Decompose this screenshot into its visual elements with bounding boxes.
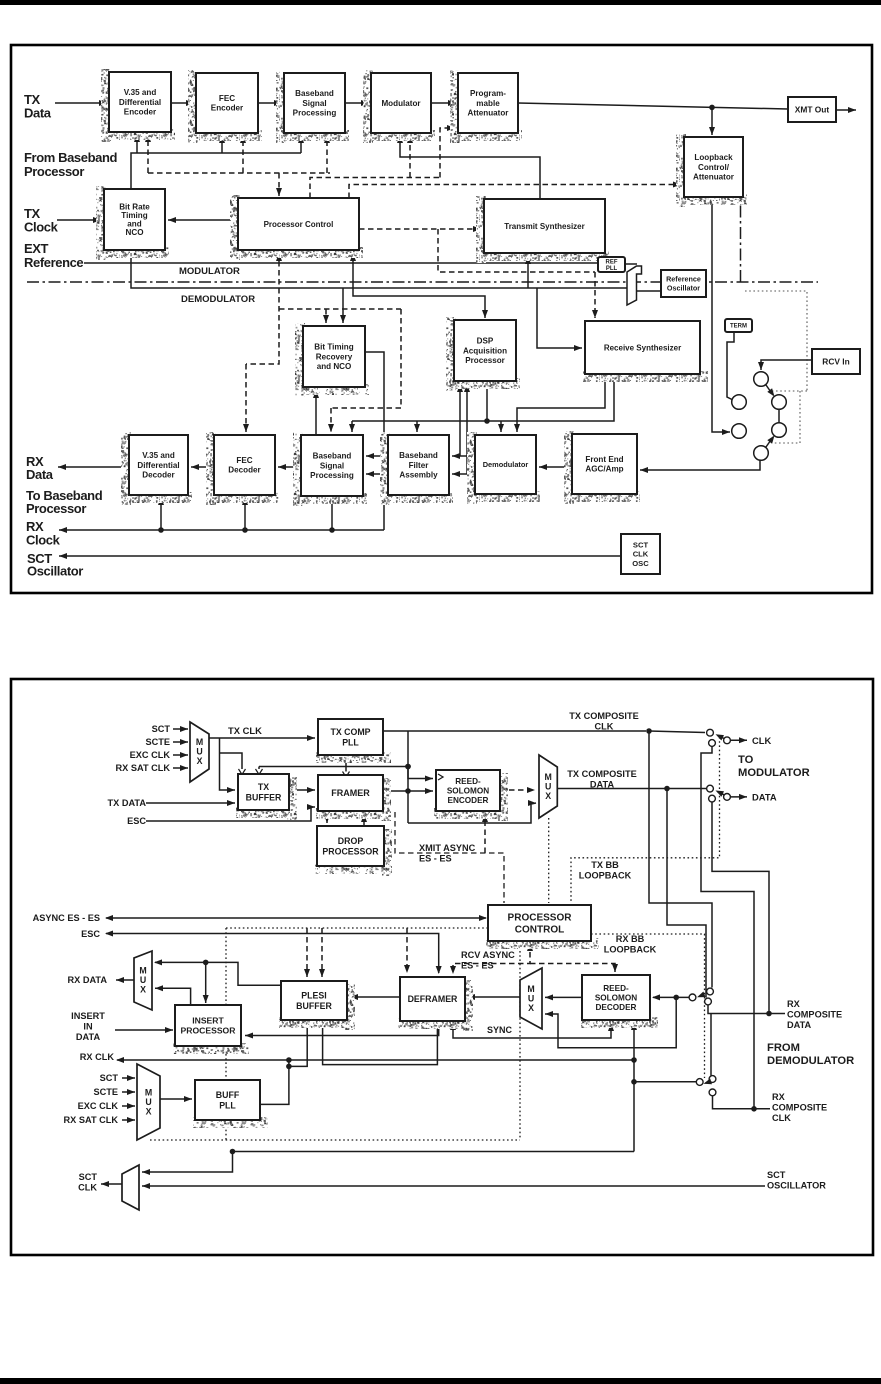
block DSP Acquisition Processor xyxy=(446,317,520,391)
hybrid link C6-C4 xyxy=(766,436,775,448)
wire DATA output arrow xyxy=(731,794,748,800)
mux M4 (sct clk select) xyxy=(122,1165,139,1210)
svg-text:Processing: Processing xyxy=(310,471,354,480)
svg-text:From Baseband: From Baseband xyxy=(24,150,118,165)
junction dots on vertical xyxy=(405,764,411,770)
wire receive synth -> demodulator xyxy=(514,374,605,432)
switch RX DATA contact dn xyxy=(705,998,712,1005)
svg-text:TX COMPOSITE: TX COMPOSITE xyxy=(569,711,638,721)
dashed bus D1 drop into processor control xyxy=(276,173,282,196)
block Processor Control xyxy=(230,195,363,260)
hybrid link C2-C4 xyxy=(778,410,780,423)
label From Baseband Processor xyxy=(24,150,118,179)
wire mux2 out TX COMPOSITE DATA xyxy=(557,786,706,792)
wire clk feed to mux2 lower input xyxy=(408,800,536,823)
wire ESC line xyxy=(105,931,442,975)
block RCV In xyxy=(812,349,860,374)
wire junction down into loopback control xyxy=(709,107,715,135)
wire clk bus to tx buffer / framer tops xyxy=(259,764,411,773)
wire RX Data output xyxy=(58,464,129,470)
svg-text:Processor Control: Processor Control xyxy=(264,220,334,229)
wire rx composite clk line xyxy=(713,1096,771,1112)
switch TX DATA blade xyxy=(716,791,725,797)
wire tx clk drop to tx buffer left xyxy=(220,738,236,793)
svg-text:COMPOSITE: COMPOSITE xyxy=(772,1102,827,1112)
block Baseband Signal Processing (rx) xyxy=(293,432,367,506)
wire clk vertical drop xyxy=(407,731,409,823)
svg-text:TO: TO xyxy=(738,754,754,766)
wire drop into sct clk mux xyxy=(142,1152,233,1176)
svg-text:PLL: PLL xyxy=(342,737,359,747)
wire XMT out exit arrow xyxy=(837,107,856,113)
block TX BUFFER xyxy=(236,774,297,820)
dotted outline near rcv hybrid 1 xyxy=(745,291,807,391)
label SCTE (mux6) xyxy=(93,1087,118,1097)
block Baseband Signal Processing (tx) xyxy=(276,70,349,143)
label SCT CLK xyxy=(78,1172,97,1192)
wire mux1 input SCTE xyxy=(173,739,188,745)
dashed bus D2 branch into attenuator left xyxy=(440,125,455,178)
label RCV ASYNC ES - ES xyxy=(461,950,515,970)
dashed branch into receive synthesizer top xyxy=(592,272,598,318)
wire DSP acquisition drop xyxy=(486,381,488,421)
svg-text:RX SAT CLK: RX SAT CLK xyxy=(64,1115,119,1125)
switch TX DATA contact 1 xyxy=(707,785,714,792)
label RX CLK xyxy=(80,1052,115,1062)
wire baseband rx -> FEC decoder xyxy=(278,464,301,470)
divider branch up to loopback box (dash-dot) xyxy=(740,199,742,282)
mux M2 (tx composite data) xyxy=(539,755,557,818)
wire RX CLK line xyxy=(116,1057,634,1063)
open chevron into plesi bottom A xyxy=(304,1020,311,1026)
mux symbol beside REF PLL xyxy=(627,266,642,305)
svg-text:XMT Out: XMT Out xyxy=(795,104,830,114)
svg-text:X: X xyxy=(140,984,146,994)
block Transmit Synthesizer xyxy=(476,196,609,263)
wire V.35 enc -> FEC enc xyxy=(171,100,194,106)
wire RCV In to hybrid xyxy=(758,360,812,370)
wire mux1 -> tx comp pll (TX CLK) xyxy=(209,735,315,741)
wire framer -> rs encoder xyxy=(383,788,433,794)
label RX Clock xyxy=(26,519,61,548)
dashed into baseband sig proc (rx) top xyxy=(328,408,334,432)
wire bit-rate-timing clock bus xyxy=(131,153,301,190)
switch RX CLK contact dn xyxy=(709,1089,716,1096)
wire rx data from switch to rs decoder xyxy=(652,994,689,1000)
label DEMODULATOR xyxy=(181,294,255,305)
svg-text:NCO: NCO xyxy=(126,228,144,237)
block XMT Out xyxy=(788,97,836,122)
svg-text:Signal: Signal xyxy=(302,99,326,108)
wire demod to dsp acq B xyxy=(464,384,470,474)
svg-text:Demodulator: Demodulator xyxy=(483,460,529,469)
wire transmit synthesizer -> modulator xyxy=(397,135,540,199)
svg-text:SCTE: SCTE xyxy=(145,737,170,747)
svg-text:REED-: REED- xyxy=(603,984,629,993)
svg-text:Modulator: Modulator xyxy=(381,99,421,108)
wire lower bus into baseband filter top xyxy=(414,421,420,432)
junction on tx composite clk xyxy=(646,728,652,734)
svg-text:CLK: CLK xyxy=(595,721,614,731)
block V.35 and Differential Decoder xyxy=(121,432,192,505)
block Bit Timing Recovery and NCO xyxy=(295,323,369,397)
label TX COMPOSITE DATA xyxy=(567,769,636,789)
wire processor control <-> DSP acquisition xyxy=(350,252,488,318)
wire plesi -> mux5 input1 xyxy=(154,959,281,985)
block Baseband Filter Assembly xyxy=(380,432,453,505)
mux M5 (rx data select) xyxy=(134,951,152,1010)
label ASYNC ES - ES xyxy=(33,913,100,923)
svg-text:Baseband: Baseband xyxy=(399,451,438,460)
wire mux1 input RX SAT CLK xyxy=(173,765,188,771)
label CLK out xyxy=(752,735,771,746)
junction on bottom line xyxy=(230,1149,236,1155)
svg-text:TERM: TERM xyxy=(730,324,747,330)
wire drop processor -> framer xyxy=(361,814,367,826)
svg-text:Baseband: Baseband xyxy=(313,452,352,461)
label ESC (tx) xyxy=(127,816,146,826)
label XMIT ASYNC ES - ES xyxy=(419,843,476,863)
junction dots on rs decoder drop xyxy=(631,1057,637,1063)
svg-text:X: X xyxy=(197,756,203,766)
label RX COMPOSITE DATA xyxy=(787,999,842,1030)
svg-text:LOOPBACK: LOOPBACK xyxy=(579,870,632,880)
dashed net from processor control bottom xyxy=(246,252,282,364)
block Bit Rate Timing and NCO xyxy=(96,186,169,260)
label SCTE (mux1) xyxy=(145,737,170,747)
block Front End AGC/Amp xyxy=(564,431,641,504)
svg-text:V.35 and: V.35 and xyxy=(142,451,175,460)
svg-text:RX DATA: RX DATA xyxy=(68,975,108,985)
chevron inside rs encoder input xyxy=(438,774,443,780)
svg-text:CLK: CLK xyxy=(772,1113,791,1123)
switch TX CLK contact 2 xyxy=(709,740,716,747)
switch RX DATA blade xyxy=(697,992,706,998)
label SCT Oscillator xyxy=(27,551,83,579)
svg-text:X: X xyxy=(528,1003,534,1013)
svg-text:COMPOSITE: COMPOSITE xyxy=(787,1009,842,1019)
dashed down right side xyxy=(331,309,401,408)
block Modulator xyxy=(363,70,435,143)
svg-text:Differential: Differential xyxy=(137,461,179,470)
svg-text:EXC CLK: EXC CLK xyxy=(78,1101,119,1111)
svg-text:BUFFER: BUFFER xyxy=(246,792,282,802)
wire TX Data input xyxy=(55,100,107,106)
wire mux6 input EXC CLK xyxy=(122,1103,135,1109)
label TO MODULATOR xyxy=(738,754,810,779)
wire framer -> drop processor xyxy=(324,811,330,823)
wire mux6 input SCTE xyxy=(122,1089,135,1095)
block Loopback Control/Attenuator xyxy=(676,134,747,207)
dotted bus above rx boxes xyxy=(226,927,488,929)
wire RX clock bus xyxy=(59,527,384,533)
dashed drop into plesi buffer top A xyxy=(304,928,310,977)
svg-text:Control/: Control/ xyxy=(698,163,730,172)
label TX DATA xyxy=(108,798,147,808)
svg-text:Front End: Front End xyxy=(585,455,623,464)
label TX CLK xyxy=(228,725,262,736)
svg-text:DEMODULATOR: DEMODULATOR xyxy=(181,294,255,305)
svg-text:Bit Timing: Bit Timing xyxy=(314,343,353,352)
dashed bus D1 riser into V.35 encoder xyxy=(145,134,151,173)
wire mux6 input RX SAT CLK xyxy=(122,1117,135,1123)
block REF PLL xyxy=(598,257,625,272)
svg-text:REED-: REED- xyxy=(455,777,481,786)
svg-text:EXC CLK: EXC CLK xyxy=(130,750,171,760)
dashed into FEC decoder top xyxy=(243,364,249,432)
block BUFF PLL xyxy=(193,1080,268,1128)
block Receive Synthesizer xyxy=(583,321,708,382)
svg-text:BUFF: BUFF xyxy=(216,1090,240,1100)
svg-text:and NCO: and NCO xyxy=(317,362,352,371)
wire branch into insert processor top xyxy=(203,962,209,1003)
diagram 1 outer frame xyxy=(11,45,872,593)
label To Baseband Processor xyxy=(26,488,103,516)
wire front end -> demodulator xyxy=(539,464,572,470)
svg-text:DATA: DATA xyxy=(787,1020,812,1030)
wire rx data tap to mux3 lower input xyxy=(545,997,676,1047)
wire rx clock riser baseband rx xyxy=(331,497,333,530)
dashed drop into bit timing recovery top xyxy=(323,309,329,323)
switch TX DATA contact 2 xyxy=(709,795,716,802)
wire clk vertical to rs encoder upper input xyxy=(408,767,433,782)
modulator/demodulator divider (dash-dot) xyxy=(27,281,818,283)
wire REF PLL to mux tab xyxy=(625,263,637,265)
svg-text:ESC: ESC xyxy=(127,816,146,826)
svg-text:Signal: Signal xyxy=(320,461,344,470)
svg-text:CONTROL: CONTROL xyxy=(515,924,564,935)
open chevron into tx buffer top B xyxy=(256,769,263,775)
svg-text:FROM: FROM xyxy=(767,1042,800,1054)
wire demod to dsp acq A xyxy=(457,384,463,456)
arrowhead into rs decoder bottom xyxy=(631,1022,637,1030)
block TERM xyxy=(725,319,752,332)
svg-text:Assembly: Assembly xyxy=(399,471,438,480)
label SCT OSCILLATOR xyxy=(767,1170,826,1190)
block Demodulator xyxy=(467,432,540,504)
hybrid transformer circle C5 xyxy=(732,424,747,439)
svg-text:PLESI: PLESI xyxy=(301,990,326,1000)
wire SYNC link deframer/rs decoder xyxy=(450,1021,614,1038)
block FEC Encoder xyxy=(188,70,262,143)
wire FEC decoder -> V.35 decoder xyxy=(191,464,214,470)
wire to rx clk switch pole xyxy=(634,1081,696,1083)
svg-text:PLL: PLL xyxy=(219,1100,236,1110)
wire clock bus riser into FEC encoder xyxy=(219,135,225,153)
label RX BB LOOPBACK xyxy=(604,934,657,954)
svg-text:TX DATA: TX DATA xyxy=(108,798,147,808)
svg-text:DATA: DATA xyxy=(590,779,615,789)
svg-text:INSERT: INSERT xyxy=(71,1011,105,1021)
hybrid transformer circle C1 xyxy=(754,372,769,387)
label TX COMPOSITE CLK xyxy=(569,711,638,731)
svg-text:AGC/Amp: AGC/Amp xyxy=(585,465,623,474)
mux M1 (tx clock select) xyxy=(190,722,209,782)
svg-text:Loopback: Loopback xyxy=(694,153,733,162)
label SCT (mux1) xyxy=(152,724,171,734)
wire demod -> baseband filter B xyxy=(452,471,475,477)
wire bottom long line xyxy=(233,1151,635,1153)
block Reference Oscillator xyxy=(661,270,706,297)
wire processor control -> bit rate timing xyxy=(168,217,237,223)
dashed drop into deframer top xyxy=(404,928,410,973)
svg-text:mable: mable xyxy=(476,99,500,108)
label RX Data xyxy=(26,454,54,482)
wire mux1 input SCT xyxy=(173,726,188,732)
wire clock bus riser into baseband sig proc xyxy=(298,135,304,153)
svg-text:Reference: Reference xyxy=(24,255,83,270)
svg-text:SYNC: SYNC xyxy=(487,1025,513,1035)
block INSERT PROCESSOR xyxy=(173,1005,249,1054)
svg-text:Program-: Program- xyxy=(470,89,506,98)
svg-text:RCV In: RCV In xyxy=(822,356,849,366)
svg-text:DEMODULATOR: DEMODULATOR xyxy=(767,1055,854,1067)
diagram 2 outer frame xyxy=(11,679,873,1255)
svg-text:X: X xyxy=(545,791,551,801)
svg-text:Processing: Processing xyxy=(293,109,337,118)
svg-text:XMIT ASYNC: XMIT ASYNC xyxy=(419,843,476,853)
dashed processor control -> transmit synthesizer xyxy=(359,226,481,232)
svg-text:Acquisition: Acquisition xyxy=(463,346,507,355)
wire ASYNC ES - ES line xyxy=(105,915,487,921)
wire tx buffer -> framer xyxy=(289,787,315,793)
svg-text:SCTE: SCTE xyxy=(93,1087,118,1097)
label RX COMPOSITE CLK xyxy=(772,1092,827,1123)
wire tx clk contact2 loop down xyxy=(701,747,754,1109)
svg-text:RX: RX xyxy=(787,999,801,1009)
svg-text:TX BB: TX BB xyxy=(591,860,619,870)
svg-text:Encoder: Encoder xyxy=(211,104,244,113)
wire loopback control to hybrid xyxy=(712,197,730,435)
block FEC Decoder xyxy=(206,432,279,505)
wire CLK output arrow xyxy=(731,737,748,743)
svg-text:Clock: Clock xyxy=(24,220,59,235)
bottom rule bar xyxy=(0,1378,881,1384)
svg-text:FRAMER: FRAMER xyxy=(331,788,370,798)
wire baseband rx -> bit timing recovery xyxy=(313,390,319,435)
block FRAMER xyxy=(316,775,391,821)
block TX COMP PLL xyxy=(316,719,391,763)
label TX Data xyxy=(24,92,52,121)
wire NCO bus drop to receive synthesizer xyxy=(537,288,582,351)
block Programmable Attenuator xyxy=(450,70,522,143)
block REED-SOLOMON ENCODER xyxy=(434,770,508,821)
svg-text:ENCODER: ENCODER xyxy=(448,796,489,805)
svg-text:Receive Synthesizer: Receive Synthesizer xyxy=(604,343,681,352)
label DATA out xyxy=(752,792,777,803)
wire rx composite data line xyxy=(708,1005,785,1016)
wire demod -> baseband filter A xyxy=(452,453,475,459)
svg-text:ES - ES: ES - ES xyxy=(419,853,452,863)
svg-text:TX COMPOSITE: TX COMPOSITE xyxy=(567,769,636,779)
dashed bus D3 processor control -> loopback control xyxy=(349,182,681,199)
wire data loop vertical A xyxy=(649,731,712,988)
label ESC (rx) xyxy=(81,929,100,939)
svg-text:SCT: SCT xyxy=(100,1073,119,1083)
open chevron into tx buffer top A xyxy=(239,769,246,775)
dotted big loopback rectangle right xyxy=(519,930,521,1140)
wire filter -> baseband rx B xyxy=(366,471,388,477)
svg-text:Processor: Processor xyxy=(465,356,505,365)
svg-text:PROCESSOR: PROCESSOR xyxy=(508,913,573,924)
svg-text:Processor: Processor xyxy=(26,501,86,516)
svg-text:RCV ASYNC: RCV ASYNC xyxy=(461,950,515,960)
svg-text:Oscillator: Oscillator xyxy=(27,564,83,579)
svg-text:Decoder: Decoder xyxy=(228,466,261,475)
label RX SAT CLK (mux6) xyxy=(64,1115,119,1125)
svg-text:IN: IN xyxy=(83,1021,93,1031)
svg-text:DEFRAMER: DEFRAMER xyxy=(408,994,458,1004)
wire NCO bus riser into transmit synthesizer xyxy=(525,256,531,288)
wire tx clk branch into tx buffer top xyxy=(220,753,243,772)
dashed RCV ASYNC net xyxy=(450,943,533,974)
dashed branch down xyxy=(438,229,595,272)
hybrid transformer circle C3 xyxy=(732,395,747,410)
junction lower bus / dsp xyxy=(484,418,490,424)
label EXC CLK (mux6) xyxy=(78,1101,119,1111)
mux M6 (buff pll clock select) xyxy=(137,1064,160,1140)
svg-text:RX SAT CLK: RX SAT CLK xyxy=(116,763,171,773)
switch RX CLK contact up xyxy=(709,1076,716,1083)
svg-text:TX COMP: TX COMP xyxy=(330,727,370,737)
wire deframer bottom loop to plesi xyxy=(323,1021,438,1065)
wire TX Clock input xyxy=(57,217,101,223)
wire clock bus riser into V.35 encoder xyxy=(134,134,140,153)
svg-text:V.35 and: V.35 and xyxy=(124,88,157,97)
label MODULATOR xyxy=(179,266,240,277)
svg-text:RX CLK: RX CLK xyxy=(80,1052,115,1062)
svg-text:Attenuator: Attenuator xyxy=(693,173,735,182)
wire modulator -> attenuator xyxy=(431,100,456,106)
wire pll bottom to clk bus xyxy=(345,755,347,767)
svg-text:SCT: SCT xyxy=(79,1172,98,1182)
svg-text:SOLOMON: SOLOMON xyxy=(595,993,637,1002)
label INSERT IN DATA xyxy=(71,1011,105,1042)
dashed rcv async to rs decoder top xyxy=(530,964,618,973)
hybrid transformer circle C4 xyxy=(772,423,787,438)
label EXT Reference xyxy=(24,241,83,270)
svg-text:ESC: ESC xyxy=(81,929,100,939)
wire NCO bus xyxy=(131,250,627,288)
svg-text:FEC: FEC xyxy=(219,94,235,103)
junction on XMT line xyxy=(709,105,715,111)
wire mux6 -> buff pll xyxy=(160,1096,192,1102)
svg-text:DROP: DROP xyxy=(338,836,364,846)
wire INSERT IN DATA input xyxy=(115,1027,173,1033)
wire EXT Reference to REF PLL xyxy=(84,262,598,264)
svg-text:SCT: SCT xyxy=(767,1170,786,1180)
dotted outline near rcv hybrid 3 xyxy=(774,391,800,443)
wire SCT OSCILLATOR line xyxy=(142,1183,765,1189)
dashed bus D1 riser into baseband xyxy=(324,135,330,173)
svg-text:X: X xyxy=(146,1106,152,1116)
dashed branch right xyxy=(279,308,401,310)
dashed xmit async into RS encoder bottom xyxy=(482,814,488,853)
open chevron into plesi bottom B xyxy=(319,1020,326,1026)
wire mux3 -> deframer xyxy=(467,994,520,1000)
label SYNC xyxy=(487,1025,513,1035)
block SCT CLK OSC xyxy=(621,534,660,574)
svg-text:RX BB: RX BB xyxy=(616,934,645,944)
wire mux1 input EXC CLK xyxy=(173,752,188,758)
switch RX DATA pole xyxy=(689,994,696,1001)
hybrid link C1-C2 xyxy=(766,385,775,397)
svg-text:TX CLK: TX CLK xyxy=(228,725,262,736)
svg-text:CLK: CLK xyxy=(633,550,649,559)
svg-text:ES - ES: ES - ES xyxy=(461,960,494,970)
wire tx data contact2 loop down xyxy=(712,802,769,1014)
label TX BB LOOPBACK xyxy=(579,860,632,880)
